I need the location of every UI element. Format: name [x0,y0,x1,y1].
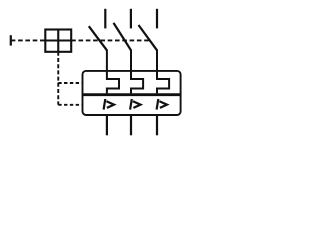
pole 1 magnetic overcurrent release I> bar [104,99,106,110]
wire dashed link to magnetic release row [58,104,82,106]
pole 2 thermal overload release F2 [131,71,143,94]
breaker enclosure box [83,71,181,115]
enclosure divider line [83,93,181,96]
pole 3 breaker contact blade [139,25,158,50]
wire dashed link to thermal release row [58,82,82,84]
wire dashed vertical link [57,52,59,105]
pole 2 wire to enclosure [130,50,132,71]
pole 2 terminal L2 [130,9,132,29]
operating mechanism U1 (square with cross) [45,30,71,52]
pole 3 wire to enclosure [156,50,158,71]
pole 1 thermal overload release F1 [107,71,119,94]
pole 1 wire to enclosure [106,50,108,71]
pole 1 terminal L1 [104,9,106,29]
pole 3 magnetic overcurrent release I> bar [157,99,159,110]
pole 2 breaker contact blade [114,23,132,50]
pole 2 magnetic overcurrent release I> chevron [133,101,141,108]
pole 2 bottom lead T2 [130,115,132,135]
pole 1 magnetic overcurrent release I> chevron [106,101,114,108]
pole 3 bottom lead T3 [156,115,158,135]
pole 3 terminal L3 [156,9,158,29]
pole 3 magnetic overcurrent release I> chevron [159,101,167,108]
wire dashed trip bar through poles [71,39,151,41]
pole 3 thermal overload release F3 [157,71,169,94]
manual actuator end tick [10,35,12,45]
pole 2 magnetic overcurrent release I> bar [130,99,132,110]
pole 1 bottom lead T1 [106,115,108,135]
pole 1 breaker contact blade [89,26,107,50]
wire dashed actuator link left [11,39,46,41]
